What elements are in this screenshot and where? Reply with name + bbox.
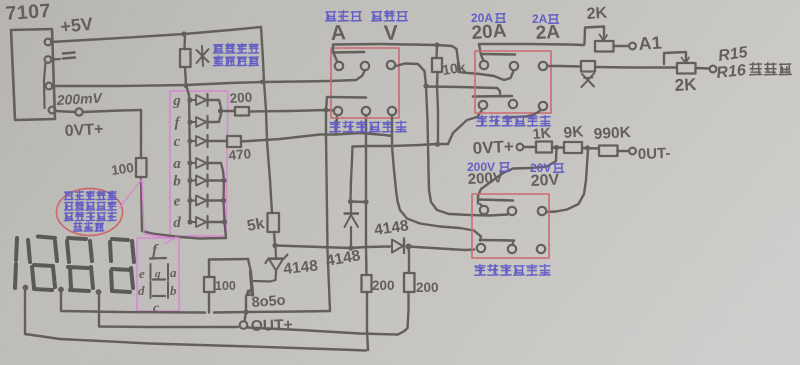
blue note: adjust display brightness line1 xyxy=(214,44,259,54)
label common point (black) xyxy=(750,63,792,75)
wire B dp2 to OUT+ node xyxy=(61,292,205,313)
seven-segment display digit 8 (second) xyxy=(68,238,86,239)
S3 contact top c3 xyxy=(538,207,546,215)
pin terminal t3 xyxy=(46,83,53,90)
wire t3 to switch S1 contact xyxy=(52,71,365,86)
wire C dp3 to OUT+ terminal xyxy=(99,294,238,327)
resistor 470 xyxy=(227,136,241,147)
pink callout funnel lines xyxy=(120,179,175,239)
S2 contact bottom c1 xyxy=(479,101,487,109)
resistor 10k xyxy=(432,58,442,72)
wire +5V rail xyxy=(51,27,261,42)
wire H247 from 5k node to diode D3 xyxy=(276,246,390,249)
blue label DPDT switch S1 xyxy=(330,121,407,132)
stub to OUT+ terminal xyxy=(245,312,247,321)
pin terminal t2 (minus) xyxy=(45,56,52,63)
diode segment d xyxy=(190,221,196,223)
junction with V1 vertical xyxy=(323,107,328,112)
S1 contact top c1 xyxy=(335,62,343,70)
wire 200mV terminal to right xyxy=(83,110,141,112)
S3 contact bottom c3 xyxy=(537,245,545,253)
terminal 200mV output xyxy=(75,108,82,115)
seven-segment display digit 8 (third) xyxy=(112,239,128,240)
S3 contact bottom c1 xyxy=(477,244,485,252)
junction 5k/zener/H-wire xyxy=(272,243,277,248)
wire 5k to node xyxy=(274,232,275,245)
S2 lower pole bar xyxy=(473,95,512,98)
wire S1 c3 curve out xyxy=(395,64,427,86)
decimal point dp1 xyxy=(23,285,29,291)
junction bus row b xyxy=(187,178,192,183)
resistor 9K xyxy=(564,142,582,153)
wire into brightness resistor xyxy=(183,34,186,49)
junction D2 top xyxy=(348,199,353,204)
resistor 200 (right divider) xyxy=(404,273,415,292)
wire to R 200 xyxy=(220,110,235,112)
potentiometer 2K (common point) xyxy=(677,63,696,74)
terminal 0VT+ divider xyxy=(517,144,524,151)
wire y87 to S2 lower pole xyxy=(426,87,497,89)
diode segment e xyxy=(190,200,196,202)
star mark (annotation) xyxy=(202,46,203,66)
resistor 990K xyxy=(599,146,618,157)
switch box (off) xyxy=(581,61,595,72)
wire stub down to S2 c1 xyxy=(479,44,484,61)
junction g+f xyxy=(218,108,223,113)
wire t2 stub xyxy=(52,58,61,61)
wire +5V vertical down to 5k xyxy=(261,27,272,213)
wire 10k bottom to H144 xyxy=(437,72,438,144)
S3 lower pole stub to c2 xyxy=(513,241,514,245)
junction bus row c xyxy=(187,138,192,143)
blue label DPDT switch S3 xyxy=(475,265,551,276)
wire pot1 to A1 terminal xyxy=(614,45,630,47)
wire 1K/9K tap down to S3 top pole xyxy=(478,148,557,204)
S2 contact top c2 xyxy=(510,62,518,70)
S1 contact bottom c3 xyxy=(388,107,396,115)
decimal point dp2 xyxy=(58,287,64,293)
stub S1 bottom c1 to 470 wire xyxy=(336,117,337,135)
junction bus row a xyxy=(187,160,192,165)
wire top rail from S1 xyxy=(333,44,452,46)
seven-segment display digit 8 (first) xyxy=(38,237,55,239)
wire loop left down xyxy=(208,260,210,278)
junction 9K/990K xyxy=(585,145,590,150)
S2 contact top c1 xyxy=(480,61,488,69)
diode D1 4148 (zener-style, cathode up) xyxy=(274,246,277,258)
wire 990K to OUT- terminal xyxy=(618,150,630,152)
S3 lower pole bar xyxy=(480,239,514,242)
pin terminal t4 (200mV) xyxy=(49,107,56,114)
S3 top pole bar xyxy=(479,200,513,201)
S1 contact top c3 xyxy=(387,61,395,69)
resistor 5k xyxy=(268,213,280,232)
wire 1K to 9K xyxy=(552,146,564,148)
wire t4 to terminal xyxy=(55,111,75,112)
wire to 1K xyxy=(524,146,537,148)
wire V3 down and curve to S3 top c2 xyxy=(426,86,508,216)
wire V1 vertical up to S1 lower pole bar xyxy=(326,97,330,311)
junction bus row d xyxy=(187,219,192,224)
wire A up into 200 left xyxy=(367,292,368,350)
S2 contact bottom c3 xyxy=(539,102,547,110)
wire diode a out xyxy=(208,163,224,171)
junction V2/stub xyxy=(363,199,368,204)
resistor 200 (g/f) xyxy=(235,107,249,116)
wire S2 c1 rail to 2K pot xyxy=(479,44,584,45)
wire emitter down xyxy=(245,296,247,311)
junction 10k/H144 xyxy=(435,142,440,147)
wire diode e out xyxy=(208,199,224,201)
wire 200 resistor to S1 bottom contact xyxy=(249,110,334,112)
wire 10k top xyxy=(435,45,438,58)
wire S1 bottom c3 down, curve to S3 lower pole bar xyxy=(392,115,481,241)
wire 470 to switch S1/S3 node xyxy=(241,133,392,142)
wire D2 top stub to V2 xyxy=(350,200,366,203)
wire to 2K pot (right) xyxy=(595,66,677,69)
X mark below box (guan/off) xyxy=(582,74,594,87)
S3 contact top c1 xyxy=(480,206,488,214)
S1 lower pole bar xyxy=(328,96,366,99)
pink box around segment diodes xyxy=(170,91,228,236)
blue label DPDT switch S2 xyxy=(477,116,551,126)
wire to base xyxy=(248,259,251,272)
minus sign bar2 xyxy=(63,58,75,59)
terminal R15/R16 common xyxy=(710,66,717,73)
wire diode d out xyxy=(208,221,225,223)
diode segment a xyxy=(190,162,196,164)
S1 contact bottom c1 xyxy=(334,107,342,115)
blue text line2 xyxy=(65,202,117,211)
junction bus row f xyxy=(187,119,192,124)
wire H144 xyxy=(353,144,449,147)
wire hook down xyxy=(497,88,500,96)
potentiometer 2K (A-range) xyxy=(595,41,614,52)
wire segment bus vertical xyxy=(186,85,190,222)
wire diode b out xyxy=(208,179,224,181)
junction brightness/bus xyxy=(183,83,188,88)
diode D3 4148 (pointing right) xyxy=(392,240,403,253)
terminal OUT- xyxy=(629,148,636,155)
wire t2 internal down to t4 node xyxy=(44,63,46,108)
blue text line4 xyxy=(74,223,104,232)
resistor 200 (left divider) xyxy=(362,275,372,292)
resistor 1K xyxy=(536,142,552,153)
S2 contact bottom c2 xyxy=(509,100,517,108)
terminal OUT+ xyxy=(240,321,248,329)
seven-segment display digit 1 xyxy=(16,238,17,260)
junction bus row e xyxy=(187,198,192,203)
junction +5V / brightness resistor xyxy=(181,31,186,36)
wire V2: S1 bottom c2 down through 200 left xyxy=(365,115,368,275)
wire 100 bottom to wire B xyxy=(208,292,210,313)
transistor Q1 8050 xyxy=(251,272,253,295)
wire C continues right xyxy=(248,328,399,335)
blue char dang1 xyxy=(496,14,506,23)
wire diode f out xyxy=(208,114,222,122)
wire diode c out xyxy=(208,140,228,142)
wire S2 bottom c3 tail xyxy=(505,110,541,117)
IC U1 7107 outline box xyxy=(11,29,55,120)
junction V3/y87 xyxy=(423,83,428,88)
wire S1 c1 stub up xyxy=(333,45,337,61)
decimal point dp3 xyxy=(96,289,102,295)
wire H144 left end down to D2 xyxy=(351,147,353,202)
S3 contact bottom c2 xyxy=(508,245,516,253)
red box DPDT switch S3 (200V/20V) xyxy=(472,194,549,258)
wire brightness resistor to bus xyxy=(185,67,186,85)
wire 9K/990K tap down to S3 top c3 xyxy=(547,150,589,212)
wire diode g out xyxy=(208,100,222,108)
diode segment f xyxy=(190,121,196,123)
wire resistor 100 down xyxy=(141,177,142,231)
junction emitter / OUT+ / wire B xyxy=(243,309,248,314)
pink diagonal to diode box corner xyxy=(165,237,176,244)
blue label voltage range xyxy=(372,11,408,21)
red box DPDT switch S1 (A/V) xyxy=(331,48,399,118)
junction D2 anode on H247 xyxy=(348,245,353,250)
wire rail turns down xyxy=(452,46,459,72)
terminal A1 xyxy=(629,43,636,50)
blue text in ellipse line1 xyxy=(65,191,117,200)
diode segment c xyxy=(190,140,196,142)
blue label current range xyxy=(326,11,362,21)
wire B continues to V1 xyxy=(214,311,330,313)
wire C up into 200 right xyxy=(398,292,409,335)
wire loop top (base feed) xyxy=(209,258,248,261)
blue text line3 xyxy=(65,212,117,221)
wire pot1 wiper loop xyxy=(585,27,605,45)
junction D3 output xyxy=(406,244,412,250)
red callout ellipse xyxy=(57,189,123,236)
S2 contact top c3 xyxy=(539,62,547,70)
wire a/b/e/d common vertical xyxy=(223,171,226,238)
wire D3 to S3 bottom c1 xyxy=(409,247,475,251)
wire D3 junction down to 200 right xyxy=(407,247,410,274)
junction bus row g xyxy=(187,97,192,102)
wire diode-block bottom to 100 resistor xyxy=(142,231,226,239)
S3 contact top c2 xyxy=(508,207,516,215)
pin terminal t1 (+5V) xyxy=(45,39,52,46)
S2 top pole bar xyxy=(482,53,515,56)
S1 contact top c2 xyxy=(361,62,369,70)
junction 1K/9K xyxy=(554,145,559,150)
minus sign bar1 xyxy=(63,53,75,54)
red box DPDT switch S2 (20A/2A) xyxy=(475,51,551,113)
wire pot2 wiper loop xyxy=(664,52,686,64)
blue char dang4 xyxy=(554,164,564,173)
pink box segment pinout diagram xyxy=(137,238,179,311)
blue char dang3 xyxy=(500,163,510,172)
wire 9K to 990K xyxy=(582,147,599,150)
resistor brightness (adjusts LED brightness) xyxy=(180,49,191,67)
resistor 100 (left) xyxy=(136,158,147,177)
blue note line2 xyxy=(214,56,259,66)
S3 top pole stub to c1 xyxy=(480,204,483,206)
wire down to resistor 100 xyxy=(140,110,142,158)
diode D2 4148 (vertical, pointing up) xyxy=(350,202,352,213)
S1 top pole bar xyxy=(334,51,364,54)
wire dips under box up to S2 top c2 xyxy=(459,71,514,80)
wire S2 c3 to off-switch box xyxy=(547,65,581,68)
diode segment b xyxy=(190,180,196,182)
junction +5V crossing xyxy=(260,80,264,84)
diode segment g xyxy=(190,99,196,101)
blue char dang2 xyxy=(549,15,559,24)
wire A dp1 to 200 resistor (left) bottom xyxy=(25,290,366,351)
wire diagonal up to S2 bottom c1 xyxy=(448,111,482,144)
S1 contact bottom c2 xyxy=(362,107,370,115)
wire pot2 to terminal xyxy=(696,67,710,70)
junction 10k xyxy=(434,42,439,47)
